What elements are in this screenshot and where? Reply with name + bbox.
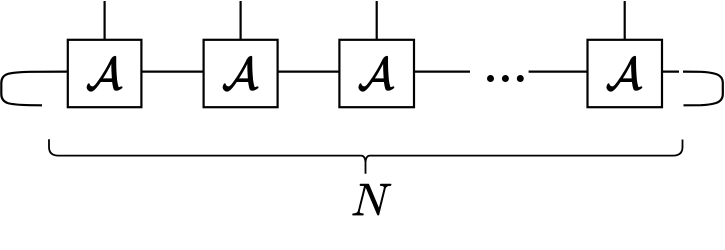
wire: bond A1-A2-A3	[104, 70, 377, 72]
wire: bond A3 to ellipsis	[413, 70, 470, 72]
underbrace spanning N sites	[49, 139, 683, 174]
wire: right periodic boundary loop	[683, 72, 723, 106]
wire: physical index of A4	[624, 1, 626, 41]
wire: physical index of A2	[240, 1, 242, 41]
tensor A3 label (script A)	[359, 56, 394, 91]
tensor A2 label (script A)	[223, 56, 258, 91]
ellipsis dot 1	[487, 75, 494, 82]
ellipsis dot 3	[517, 75, 524, 82]
tensor A4 label (script A)	[607, 56, 642, 91]
tensor A2 box	[204, 40, 278, 107]
wire: ellipsis to A4	[529, 70, 590, 72]
tensor A1 label (script A)	[87, 56, 122, 91]
wire: physical index of A3	[376, 1, 378, 41]
ellipsis dot 2	[502, 75, 509, 82]
wire: left periodic boundary loop	[1, 72, 68, 106]
wire: physical index of A1	[103, 1, 105, 41]
tensor A4 box	[588, 40, 663, 107]
tensor A3 box	[339, 40, 414, 107]
label N (number of sites)	[353, 184, 392, 215]
tensor A1 box	[68, 40, 142, 107]
wire: stub right of A4	[660, 70, 679, 72]
